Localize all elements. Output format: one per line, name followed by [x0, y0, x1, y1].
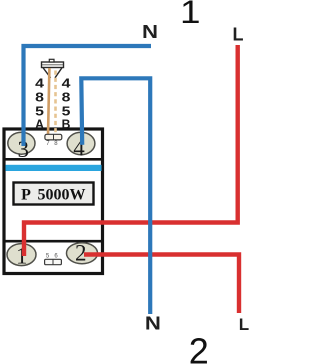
svg-text:A: A [35, 116, 44, 131]
svg-text:5000W: 5000W [38, 187, 86, 204]
svg-text:P: P [21, 187, 31, 204]
RS485 wire B (dashed tan) [54, 71, 57, 136]
wire live L top to terminal 1 (red) [24, 45, 238, 256]
terminal 2 [67, 243, 98, 264]
svg-text:L: L [239, 315, 249, 334]
svg-text:8: 8 [35, 90, 44, 105]
svg-text:B: B [62, 116, 71, 131]
connector block 5/6 [45, 259, 62, 264]
svg-text:8: 8 [62, 90, 71, 105]
wire neutral terminal 4 to N bottom (blue) [81, 78, 150, 314]
RS485 plug symbol funnel left [43, 68, 51, 78]
svg-text:4: 4 [62, 75, 72, 90]
meter blue stripe [6, 165, 102, 171]
svg-text:4: 4 [35, 75, 45, 90]
svg-text:L: L [233, 24, 244, 44]
meter bottom terminal strip separator [3, 240, 103, 243]
nameplate P 5000W box [14, 183, 94, 205]
svg-text:1: 1 [180, 0, 201, 30]
svg-text:N: N [145, 314, 161, 334]
svg-text:2: 2 [189, 331, 209, 364]
485 connector block 7/8 [45, 134, 62, 140]
RS485 wire A (solid tan) [48, 68, 49, 136]
RS485 plug symbol top tick [49, 59, 54, 62]
terminal 1 [7, 244, 36, 266]
wire neutral N top to terminal 3 (blue) [24, 46, 152, 146]
svg-text:N: N [142, 22, 158, 42]
terminal 4 [67, 132, 95, 154]
RS485 plug symbol funnel right [55, 68, 62, 78]
wire live terminal 2 to L bottom (red) [84, 255, 239, 314]
meter outer case [4, 129, 103, 274]
meter top terminal strip separator [3, 158, 103, 161]
RS485 plug symbol bar [42, 62, 64, 68]
terminal 3 [8, 132, 35, 154]
